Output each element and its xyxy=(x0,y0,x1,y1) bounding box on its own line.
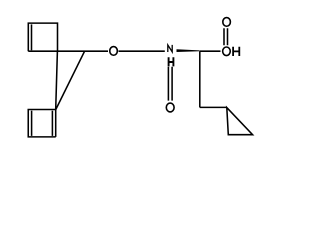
atom label O (carbonyl top-right) xyxy=(223,18,231,27)
C=O double bond top-right xyxy=(224,28,228,45)
atom label O (carbonyl bottom) xyxy=(166,103,174,112)
double bond inner line right (cyclobutadiene) xyxy=(51,111,53,136)
vertical bond: top ring right edge + spiro connector + bottom ring right edge xyxy=(56,51,58,137)
stereo wedge bond N to chiral C xyxy=(177,49,200,52)
bond CH2 horizontal xyxy=(200,106,227,108)
atom label H on N xyxy=(168,57,175,66)
C=O double bond below N xyxy=(168,67,172,101)
cyclobutadiene ring bottom-left xyxy=(28,110,55,137)
cyclopropane ring bottom-right xyxy=(227,108,253,135)
atom label N xyxy=(168,45,172,52)
cyclobutene ring top-left xyxy=(28,23,57,51)
double bond inner line left (cyclobutadiene) xyxy=(31,111,33,136)
main chain bond to ether O xyxy=(28,50,108,52)
bond chiral C down xyxy=(199,51,201,107)
atom label O (ether) xyxy=(110,47,118,56)
atom label H of OH xyxy=(232,47,240,56)
bond chiral C to carboxyl OH xyxy=(200,50,221,52)
double bond inner line (cyclobutene) xyxy=(31,24,33,50)
diagonal bond C2-C3 (cyclopropane fused) xyxy=(56,51,85,109)
bond O-N xyxy=(119,50,165,52)
atom label O of OH xyxy=(223,47,231,56)
